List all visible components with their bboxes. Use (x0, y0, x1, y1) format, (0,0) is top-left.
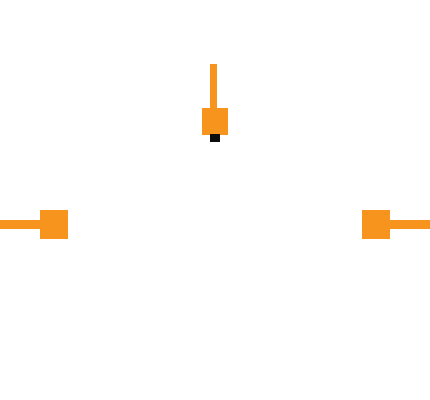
pin 2 pad (top terminal square) (202, 108, 228, 135)
pin 3 pad (right terminal square) (362, 210, 390, 239)
pin 2 wire (top vertical lead) (210, 64, 217, 109)
pin 3 wire (right horizontal lead) (389, 220, 430, 229)
symbol pin stub (black tick below top pad) (210, 134, 220, 142)
pin 1 pad (left terminal square) (40, 210, 68, 239)
pin 1 wire (left horizontal lead) (0, 220, 41, 229)
